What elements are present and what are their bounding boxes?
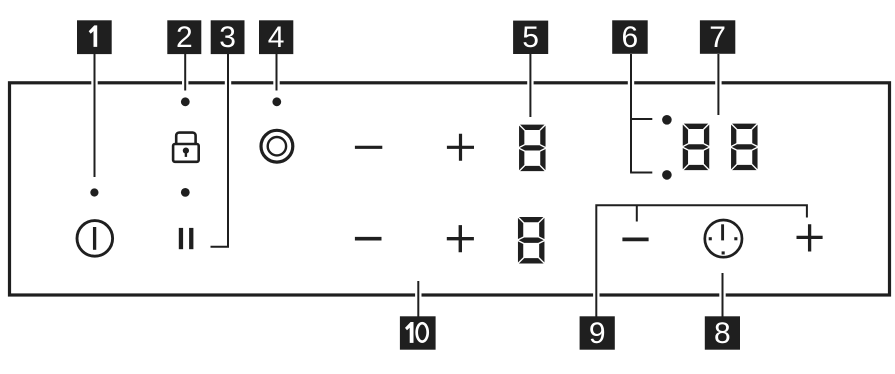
label 5 xyxy=(513,21,548,55)
svg-text:7: 7 xyxy=(709,21,726,54)
leader line 10 xyxy=(417,281,419,317)
timer LED dot upper xyxy=(662,115,672,125)
svg-text:5: 5 xyxy=(522,21,539,54)
leader line 8 xyxy=(722,273,724,317)
power level display row 2 (digit 8) xyxy=(517,216,545,264)
label 2 xyxy=(167,20,201,54)
leader line 2 xyxy=(184,54,186,91)
power button icon xyxy=(77,221,113,257)
leader line 1 xyxy=(95,54,807,317)
svg-text:3: 3 xyxy=(219,21,236,54)
zone selection ring icon xyxy=(261,130,293,162)
plus key row 2 xyxy=(447,225,474,252)
label 8 xyxy=(705,316,740,350)
label 4 xyxy=(259,20,293,54)
timer plus key xyxy=(797,224,823,251)
svg-text:9: 9 xyxy=(589,317,606,350)
minus key row 2 xyxy=(355,237,382,241)
key lock icon xyxy=(173,133,199,162)
indicator dot under label 1 (power LED) xyxy=(90,188,98,196)
label 1 xyxy=(77,20,112,54)
plus key row 1 xyxy=(447,134,474,161)
timer LED dot lower xyxy=(662,170,672,180)
leader line 3 (down then left elbow) xyxy=(211,54,229,247)
power level display row 1 (digit 8) xyxy=(518,124,546,172)
leader line 6 bracket xyxy=(630,54,632,173)
label 7 xyxy=(700,20,735,54)
label 10 xyxy=(400,316,436,349)
timer display digit 1 xyxy=(682,123,710,171)
zone LED dot (label 4) xyxy=(272,97,281,106)
label 9 xyxy=(580,316,615,350)
leader line 7 xyxy=(717,54,719,115)
svg-text:4: 4 xyxy=(268,21,285,54)
leader line 9 bracket xyxy=(596,205,807,316)
lock LED dot (label 2) xyxy=(181,97,190,106)
svg-text:6: 6 xyxy=(622,21,639,54)
control panel outline xyxy=(10,83,890,295)
minus key row 1 xyxy=(355,146,382,149)
leader line 5 xyxy=(529,54,531,117)
svg-text:2: 2 xyxy=(176,21,193,54)
pause icon II xyxy=(179,228,183,249)
label 6 xyxy=(612,20,648,54)
timer minus key xyxy=(622,237,648,241)
leader casings (white) xyxy=(95,54,723,317)
pause LED dot xyxy=(181,188,190,197)
timer icon (clock) xyxy=(705,220,742,257)
svg-text:8: 8 xyxy=(714,317,731,350)
leader line 4 xyxy=(276,54,278,91)
timer display digit 2 xyxy=(730,123,758,171)
label 3 xyxy=(211,20,245,54)
